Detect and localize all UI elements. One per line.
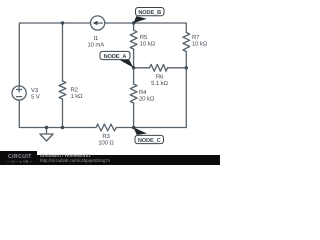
junction dot top R2: [61, 21, 64, 24]
junction dot R6-R7: [185, 66, 188, 69]
watermark author line: [40, 154, 91, 159]
watermark logo LAB: [3, 160, 37, 164]
wire R4 top lead: [133, 68, 135, 84]
node NODE_C flag box: [135, 135, 164, 143]
junction dot NODE_A: [132, 66, 135, 69]
resistor R2 zigzag: [59, 81, 66, 99]
watermark url line: [40, 159, 110, 164]
watermark logo box: [0, 151, 37, 165]
junction dot NODE_C: [132, 126, 135, 129]
svg-text:R7: R7: [192, 34, 200, 41]
svg-text:10 mA: 10 mA: [88, 42, 105, 49]
wire R7 below zigzag down and left to NODE_C: [134, 52, 187, 128]
junction dot bottom R2: [61, 126, 64, 129]
junction dot top R5 / NODE_B: [132, 21, 135, 24]
resistor R6 zigzag: [150, 64, 168, 71]
node NODE_B flag tail: [134, 16, 147, 23]
wire R2 branch bottom: [62, 99, 64, 128]
svg-text:10 kΩ: 10 kΩ: [192, 41, 208, 48]
voltage source V3 circle: [12, 86, 26, 100]
watermark logo CIRCUIT: [8, 155, 38, 160]
voltage source V3 minus sign: [17, 96, 22, 98]
wire R5 to NODE_A junction: [133, 49, 135, 68]
junction dot ground: [45, 126, 48, 129]
resistor R7 zigzag: [183, 33, 190, 52]
svg-text:5.1 kΩ: 5.1 kΩ: [151, 80, 168, 87]
svg-text:R5: R5: [140, 34, 148, 41]
node NODE_A flag box: [100, 51, 130, 59]
watermark bar: [0, 155, 220, 165]
wire top-right rail: [105, 23, 187, 33]
resistor R4 zigzag: [130, 84, 137, 103]
svg-text:1 kΩ: 1 kΩ: [71, 93, 84, 100]
node NODE_B flag box: [136, 8, 165, 16]
current source I1 arrowhead: [93, 21, 98, 25]
svg-text:I1: I1: [93, 35, 99, 42]
svg-text:R2: R2: [71, 87, 79, 94]
svg-text:20 kΩ: 20 kΩ: [139, 96, 155, 103]
wire R3 right to NODE_C junction: [116, 127, 133, 129]
wire R5 branch top: [133, 23, 135, 30]
svg-text:10 kΩ: 10 kΩ: [140, 41, 156, 48]
current source I1 arrow shaft: [96, 22, 103, 24]
wire V3 bottom to ground rail: [19, 100, 96, 127]
wire top-left rail: [19, 23, 90, 86]
current source I1 circle: [91, 16, 105, 30]
svg-text:R4: R4: [139, 89, 147, 96]
wire NODE_A to R6: [134, 67, 150, 69]
wire R2 branch top: [62, 23, 64, 81]
node NODE_A flag tail: [120, 60, 134, 68]
svg-text:100 Ω: 100 Ω: [98, 140, 114, 147]
svg-text:V3: V3: [31, 87, 39, 94]
svg-text:NODE_B: NODE_B: [138, 10, 161, 16]
svg-text:NODE_A: NODE_A: [104, 54, 127, 60]
svg-text:5 V: 5 V: [31, 93, 40, 100]
svg-text:R3: R3: [102, 133, 110, 140]
svg-text:NODE_C: NODE_C: [138, 138, 161, 144]
ground symbol: [40, 128, 53, 142]
wire R6 to R7 branch: [168, 67, 187, 69]
wire R4 bottom lead: [133, 103, 135, 128]
svg-text:R6: R6: [156, 74, 164, 81]
resistor R5 zigzag: [130, 30, 137, 49]
voltage source V3 plus sign: [17, 87, 22, 92]
node NODE_C flag tail: [134, 128, 147, 135]
resistor R3 zigzag: [96, 124, 116, 131]
